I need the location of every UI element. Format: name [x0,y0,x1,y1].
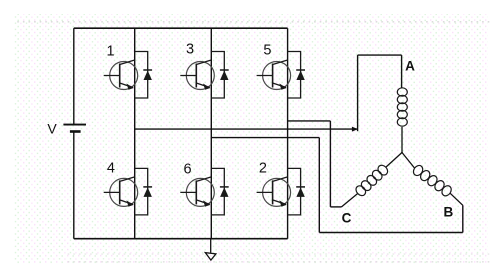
wire: phase B rise to winding B [462,205,464,232]
transistor Q3 [180,60,214,90]
wire: inverter leg 5/2 vertical [287,28,289,239]
winding A (inductor coil, vertical) [397,88,407,126]
svg-text:A: A [405,59,415,74]
diode D3 (antiparallel) [211,52,228,99]
diode D5 (antiparallel) [288,52,305,99]
wire: phase B output from leg 3/6 (horizontal) [211,137,319,139]
svg-text:4: 4 [107,160,115,176]
winding B (inductor coil, diagonal) [412,164,454,198]
svg-text:C: C [342,211,352,226]
svg-text:B: B [444,205,454,220]
wire: phase C output from leg 5/2 (horizontal) [288,120,331,122]
winding C (inductor coil, diagonal) [354,163,390,197]
wire: inverter leg 3/6 vertical [210,28,212,239]
svg-text:6: 6 [183,161,191,177]
svg-text:2: 2 [259,161,267,177]
ground symbol below bottom rail [205,239,216,260]
transistor Q6 [180,177,214,207]
wire: winding A to star node [401,127,403,153]
wire: star node to winding C [386,153,403,168]
wire: phase C vertical drop [329,121,331,207]
wire: left bus wire (top half, to battery +) [73,28,75,124]
wire: inverter leg 1/4 vertical [134,28,136,239]
transistor Q5 [257,60,291,90]
wire: phase B vertical drop [318,138,320,233]
wire: phase A riser up [357,55,359,131]
wire: phase C diagonal into winding C [342,193,359,207]
wire: phase C bottom horizontal [330,206,341,208]
transistor Q4 [104,177,138,207]
diode D6 (antiparallel) [211,168,228,215]
wire: phase A top horizontal [358,54,402,56]
transistor Q2 [257,177,291,207]
transistor Q1 [104,60,138,90]
node: star point of Y [401,152,403,154]
wire: phase B diagonal into winding B [450,193,463,205]
wire: star node to winding B [402,153,415,169]
svg-text:5: 5 [263,43,271,59]
svg-text:3: 3 [186,42,194,58]
diode D1 (antiparallel) [135,52,152,99]
diode D4 (antiparallel) [135,168,152,215]
wire: phase A output from leg 1/4 (horizontal) [135,128,358,130]
wire: bottom DC bus rail [74,238,288,240]
svg-text:1: 1 [106,43,114,59]
wire: phase A drop to winding A [401,55,403,88]
wire: top DC bus rail [74,27,288,29]
wire: left bus wire (bottom half, from battery -) [73,133,75,239]
junction arrowhead at phase A riser [352,127,358,132]
battery V (DC source) [63,124,86,133]
wire: phase B long bottom horizontal [319,232,463,234]
svg-text:V: V [47,120,57,136]
diode D2 (antiparallel) [288,168,305,215]
